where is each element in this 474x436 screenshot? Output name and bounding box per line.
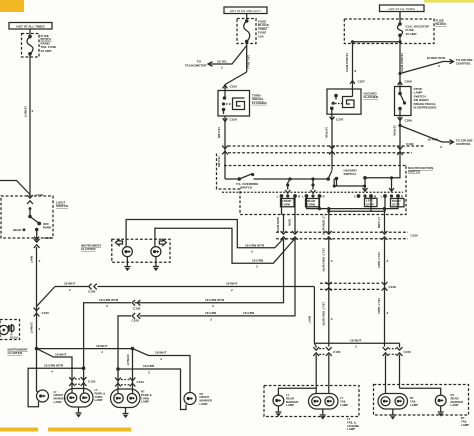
svg-text:C150: C150 (333, 350, 341, 354)
LT park and turn lamp (dual bulb) (65, 389, 94, 408)
LT rear lamps (dashed box) (264, 386, 359, 417)
wire front turn R output down (GRN) (288, 196, 295, 232)
svg-text:C150: C150 (404, 350, 412, 354)
yellow highlight block top-left (0, 0, 24, 12)
svg-text:20 AMP: 20 AMP (406, 32, 417, 36)
svg-text:STOP: STOP (392, 203, 400, 207)
ground under LT tail lamp (320, 409, 326, 420)
svg-text:SWITCH: SWITCH (56, 204, 69, 208)
wire 18 GRN rail (line 3) (118, 239, 295, 394)
RT rear marker lamp (435, 395, 446, 406)
label LT REAR MARKER LAMP (286, 393, 298, 407)
connector C100 bulkhead dashed lines (228, 142, 424, 153)
svg-text:18 RED WTR: 18 RED WTR (400, 53, 404, 73)
svg-text:GRN WTR: GRN WTR (276, 217, 280, 233)
label MULTIFUNCTION SWITCH (408, 166, 434, 174)
svg-text:SWITCH: SWITCH (240, 186, 253, 190)
ground under LT park lamp (76, 407, 82, 418)
wire 18 GRN WTR to cluster left indicator (126, 220, 283, 254)
svg-text:C108: C108 (389, 285, 397, 289)
wire 18 WHT park rail (line 1) (55, 282, 314, 294)
wire from hot box to park fuse (29, 29, 31, 36)
instrument cluster (dashed box, turn indicators) (112, 239, 170, 262)
wire branch to RT rear marker (400, 388, 441, 395)
svg-text:LAMP: LAMP (95, 398, 103, 402)
svg-text:18 WHT: 18 WHT (96, 344, 107, 348)
label stop lamp switch (414, 87, 438, 110)
wire branch from left page edge joining light switch feed (0, 181, 30, 195)
svg-text:HOT AT ALL TIMES: HOT AT ALL TIMES (16, 24, 44, 28)
svg-text:18 WHT: 18 WHT (23, 106, 27, 117)
svg-text:20 AMP: 20 AMP (41, 49, 52, 53)
switch linkage dashed line (222, 191, 403, 193)
stop lamp switch S1 (395, 87, 412, 116)
svg-text:C100: C100 (88, 290, 96, 294)
RT park and turn lamp (dual bulb) (111, 389, 141, 408)
wire left stop output jog (327, 196, 385, 213)
yellow highlight bar bottom-center (48, 428, 131, 432)
wire stop feed inside switch (363, 170, 400, 192)
wire 18 WHT rear tail feed split (314, 339, 399, 349)
wire hazard cross link (333, 179, 367, 188)
svg-text:C100: C100 (406, 142, 414, 146)
svg-text:BEAM: BEAM (10, 336, 19, 340)
svg-text:18 LT GRN WTR: 18 LT GRN WTR (322, 248, 326, 272)
connector C207 above hazard flasher (350, 80, 365, 84)
svg-text:3: 3 (256, 265, 258, 269)
svg-text:C108: C108 (44, 236, 52, 240)
svg-text:LAMP: LAMP (340, 403, 348, 407)
svg-text:18 GRN: 18 GRN (143, 364, 155, 368)
label RT PARK and TURN LAMP (141, 390, 152, 404)
svg-text:10A: 10A (258, 34, 264, 38)
svg-text:LAMP: LAMP (461, 423, 469, 427)
hazard switch contacts (326, 171, 338, 187)
svg-text:C207: C207 (336, 118, 344, 122)
svg-text:C206: C206 (405, 119, 413, 123)
node HOT AT ALL TIMES (right) (380, 5, 425, 12)
svg-text:C150: C150 (88, 380, 96, 384)
svg-text:18 GRN WTR: 18 GRN WTR (44, 363, 64, 367)
svg-text:IS DEPRESSED: IS DEPRESSED (414, 106, 438, 110)
svg-text:TACHOMETER: TACHOMETER (185, 64, 207, 68)
svg-text:CLUSTER: CLUSTER (8, 351, 23, 355)
svg-text:L: L (302, 195, 304, 199)
wire jog into turn signal flasher (225, 72, 247, 85)
contact right stop (381, 188, 404, 207)
svg-text:18 WHT: 18 WHT (30, 322, 34, 333)
wire from turn fuse down (246, 42, 248, 73)
svg-text:HOT IN ON AND ACCY: HOT IN ON AND ACCY (230, 9, 261, 13)
light switch (dashed box) (1, 196, 53, 238)
svg-text:SWITCH: SWITCH (408, 170, 421, 174)
fuse block dashed box (right) (344, 19, 434, 44)
connector C108 above light switch (27, 193, 43, 204)
RT tail lamp (dual bulb) (378, 394, 408, 410)
svg-text:18 GRN: 18 GRN (252, 259, 264, 263)
node HOT IN ON AND ACCY (224, 7, 267, 14)
svg-text:C100: C100 (132, 319, 140, 323)
svg-text:18 PNK: 18 PNK (393, 125, 397, 137)
svg-text:4: 4 (39, 327, 41, 331)
svg-text:C100: C100 (230, 118, 238, 122)
svg-text:L: L (381, 195, 383, 199)
svg-text:18 WHT: 18 WHT (55, 352, 66, 356)
label RT FRONT MARKER LAMP (200, 392, 212, 406)
wire 18 PNK hazard output down (325, 120, 335, 170)
label LT TAIL and LICENSE LAMP (347, 417, 359, 431)
wire 18 YEL branch to tachometer (185, 46, 247, 70)
label fuse F2 (258, 20, 270, 39)
ground under left indicator (124, 257, 130, 272)
ground under RT rear marker (438, 406, 444, 417)
svg-text:18 LT GRN WTR: 18 LT GRN WTR (322, 302, 326, 326)
svg-text:3: 3 (438, 64, 440, 68)
wire 18 GRN WTR rail (line 2) (84, 239, 284, 369)
svg-text:WHT: WHT (308, 316, 312, 323)
label RT TAIL LAMP (outside box) (461, 416, 469, 427)
svg-text:LAMP: LAMP (451, 403, 459, 407)
svg-text:18 PNK: 18 PNK (325, 127, 329, 139)
connector C150 above RT tail lamp (383, 347, 412, 394)
connector C206 below stop lamp switch (398, 117, 413, 122)
svg-text:GRN: GRN (288, 219, 292, 227)
svg-text:3: 3 (387, 259, 389, 263)
yellow highlight bar bottom-left (0, 428, 38, 432)
svg-text:C206: C206 (405, 80, 413, 84)
wire 18 PNK branch to cruise control (lower) (398, 124, 472, 149)
wire rear right output down (LT GRN) (377, 209, 384, 232)
svg-text:18 WHT: 18 WHT (155, 351, 166, 355)
svg-text:C100: C100 (411, 234, 419, 238)
wire 18 RED WTR branch to cruise control (top) (398, 56, 472, 75)
svg-text:FLASHER: FLASHER (364, 95, 379, 99)
svg-text:C207: C207 (358, 80, 366, 84)
svg-text:4: 4 (39, 259, 41, 263)
contact left stop (354, 188, 377, 207)
turn signal flasher U1 (218, 91, 250, 117)
connector C100 below flasher (223, 116, 238, 122)
contact rear turn (302, 179, 325, 207)
hi-beam cluster (dashed box) (0, 320, 19, 340)
label LT TAIL LAMP (340, 396, 348, 407)
svg-text:18 GRN WTR: 18 GRN WTR (205, 298, 225, 302)
label hazard flasher (364, 92, 379, 100)
wire 18 RED WTR to stop lamp switch (400, 42, 404, 87)
wire bus inside fuse block (351, 35, 402, 43)
wire hot box to clk fuse (399, 12, 401, 24)
wire 18 WHT down to RT park lamp right bulb (126, 349, 133, 393)
svg-text:18 WHT: 18 WHT (226, 282, 237, 286)
wire 18 WHT diag to RT front marker (133, 349, 191, 393)
node HOT AT ALL TIMES (left) (9, 23, 52, 30)
yellow highlight strip top-right (424, 0, 474, 3)
svg-text:L: L (354, 195, 356, 199)
ground under RT tail lamp (390, 409, 396, 420)
svg-text:3: 3 (387, 311, 389, 315)
wire front turn L output down (GRN WTR) (276, 196, 283, 233)
connector C100 mid dashed line (276, 232, 418, 238)
svg-text:CONTROL: CONTROL (456, 142, 471, 146)
svg-text:18 WHT: 18 WHT (126, 354, 130, 365)
wire 18 GRN to RT front marker loop (116, 364, 186, 409)
label LT FRONT MARKER LAMP (54, 390, 66, 404)
wire TS override feed (from flasher) inside switch (225, 173, 328, 181)
svg-text:2: 2 (221, 66, 223, 70)
wire 18 GRN flasher output down into switch (217, 122, 228, 180)
wire 18 WHT branch to LT park lamp (37, 349, 73, 393)
connector C108 below light switch (34, 234, 52, 248)
connector X marks at C100 line (281, 231, 388, 240)
svg-text:HOT AT ALL TIMES: HOT AT ALL TIMES (389, 7, 415, 11)
svg-text:3: 3 (440, 145, 442, 149)
svg-text:18 GRN WTR: 18 GRN WTR (99, 298, 119, 302)
wire 18 RED WTR to hazard flasher (345, 42, 356, 89)
svg-text:CONTROL: CONTROL (456, 62, 471, 66)
RT front marker lamp (184, 393, 196, 405)
wire rear turn left output jog (307, 196, 399, 210)
label INSTRUMENT CLUSTER (center) (81, 244, 101, 252)
svg-text:18 L-BLU: 18 L-BLU (246, 55, 250, 69)
svg-text:18 LT GRN: 18 LT GRN (377, 298, 381, 314)
svg-text:SWITCH: SWITCH (344, 172, 357, 176)
svg-text:18 GRN: 18 GRN (217, 127, 221, 139)
wire 18 GRN WTR loop to LT front marker (28, 363, 85, 406)
wire 18 GRN to cluster right indicator (155, 228, 295, 268)
wire 18 WHT from junction to front rail (37, 344, 135, 354)
label 18 L-BLU on flasher feed (246, 55, 250, 69)
svg-text:2: 2 (355, 345, 357, 349)
fuse F1 PARK/TAIL 20A (dashed fuse block) (22, 34, 40, 58)
hazard flasher U2 (327, 89, 361, 114)
LT front marker lamp (37, 390, 49, 402)
svg-text:18 GRN WTR: 18 GRN WTR (245, 243, 265, 247)
svg-text:LAMP: LAMP (286, 403, 294, 407)
svg-text:3: 3 (331, 317, 333, 321)
indicator lamp right (151, 247, 161, 257)
svg-text:4: 4 (51, 370, 53, 374)
wire hot box to turn fuse (246, 14, 248, 21)
svg-text:18 WHT: 18 WHT (64, 282, 75, 286)
svg-text:3: 3 (210, 318, 212, 322)
svg-text:C100: C100 (230, 85, 238, 89)
connector C108 dashed line (rear) (320, 282, 396, 291)
wire 18 LT GRN rear right down (377, 239, 388, 347)
label T.S. OVERRIDE SWITCH (236, 182, 258, 190)
svg-text:18 PNK: 18 PNK (428, 138, 440, 142)
svg-text:LAMP: LAMP (347, 427, 355, 431)
wire 18 WHT tail rail corner down (308, 287, 315, 344)
ground under LT rear marker (275, 406, 281, 417)
connector C100 above flasher (223, 85, 238, 92)
svg-text:CLUSTER: CLUSTER (81, 247, 96, 251)
wire 18 WHT from fuse down to light switch (29, 54, 31, 196)
svg-text:LAMP: LAMP (141, 400, 149, 404)
svg-text:18 GRN: 18 GRN (205, 311, 217, 315)
LT rear marker lamp (273, 395, 284, 406)
svg-text:2: 2 (32, 109, 34, 113)
connector C150 above LT park and turn lamp (69, 377, 96, 386)
svg-text:FLASHER: FLASHER (252, 101, 267, 105)
svg-text:C100: C100 (42, 311, 50, 315)
svg-text:8: 8 (355, 69, 357, 73)
wire down into LT park and turn right bulb (83, 368, 85, 393)
svg-text:C100: C100 (133, 307, 141, 311)
fuse F2 TURN 10A (dashed fuse block) (237, 19, 256, 44)
svg-text:LAMP: LAMP (54, 400, 62, 404)
svg-text:STOP: STOP (366, 202, 374, 206)
contact front turn (277, 179, 301, 207)
label turn signal flasher (252, 94, 267, 105)
connector C150 above LT tail lamp (313, 347, 340, 394)
label FUSE BLOCK (right) (436, 19, 448, 27)
svg-text:4: 4 (101, 350, 103, 354)
svg-text:18 RED WTR: 18 RED WTR (427, 56, 447, 60)
indicator lamp left (122, 247, 132, 257)
wire light switch output down left side (30, 247, 49, 391)
svg-text:LT GRN: LT GRN (377, 217, 381, 229)
wire 18 WHT branch to park rail (37, 287, 56, 307)
svg-text:18 RED WTR: 18 RED WTR (345, 53, 349, 73)
fuse F3 CLK HAZ/STOP 20A (397, 22, 429, 37)
label RT REAR MARKER LAMP (451, 393, 463, 407)
svg-text:L: L (277, 195, 279, 199)
svg-text:WHT: WHT (30, 256, 34, 263)
ground under RT park lamp (123, 408, 129, 419)
connector C150 above RT park and turn lamp (115, 378, 144, 387)
connector C206 above stop lamp switch (398, 80, 413, 85)
svg-text:2: 2 (69, 288, 71, 292)
svg-text:3: 3 (148, 371, 150, 375)
multifunction switch (dashed box, stepped outline) (217, 154, 407, 215)
label LT PARK and TURN LAMP (95, 388, 106, 402)
svg-text:18 WHT: 18 WHT (350, 339, 361, 343)
wire branch to LT rear marker (278, 388, 316, 395)
label INSTRUMENT CLUSTER (left) (8, 348, 28, 356)
wire rear left output down (LT GRN WTR) (322, 209, 329, 236)
svg-text:3: 3 (331, 259, 333, 263)
label fuse F1 (41, 34, 57, 53)
svg-text:18 GRN: 18 GRN (243, 311, 255, 315)
svg-text:LAMP: LAMP (410, 403, 418, 407)
label LIGHT SWITCH (56, 201, 69, 209)
svg-text:18 YEL: 18 YEL (217, 60, 227, 64)
ground under right indicator (153, 257, 159, 272)
label RT TAIL LAMP (410, 396, 418, 407)
svg-text:TURN: TURN (307, 203, 315, 207)
svg-text:3: 3 (212, 304, 214, 308)
connector C207 below hazard flasher (330, 114, 344, 121)
wire 18 LT GRN WTR rear left down (322, 239, 333, 347)
svg-text:HEAD: HEAD (13, 228, 23, 232)
svg-text:18 GRN: 18 GRN (217, 156, 221, 168)
svg-text:BLOCK: BLOCK (436, 22, 448, 26)
wire 18 PNK stop output down (393, 116, 403, 171)
LT tail lamp (dual bulb) (309, 394, 339, 410)
svg-text:C150: C150 (137, 380, 145, 384)
svg-text:PARK: PARK (43, 225, 52, 229)
label HAZARD SWITCH (344, 169, 358, 177)
svg-text:4: 4 (160, 357, 162, 361)
svg-text:TURN: TURN (282, 203, 290, 207)
svg-text:2: 2 (231, 288, 233, 292)
label 18 WHT on left feed (23, 106, 33, 117)
RT rear lamps (dashed box) (374, 385, 469, 416)
svg-text:LAMP: LAMP (200, 402, 208, 406)
svg-text:18 LT GRN: 18 LT GRN (377, 252, 381, 268)
svg-text:3: 3 (106, 304, 108, 308)
svg-text:3: 3 (251, 250, 253, 254)
